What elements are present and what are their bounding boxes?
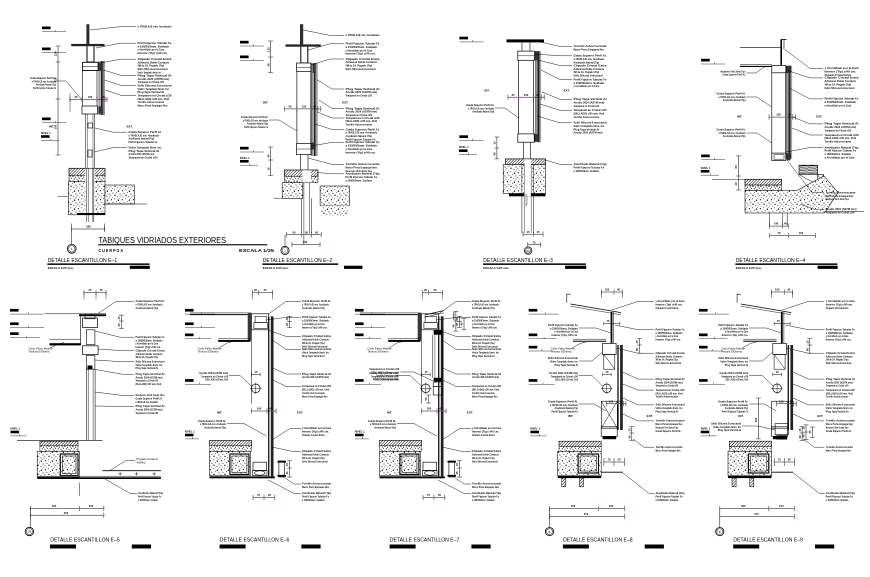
svg-text:15: 15: [117, 316, 121, 319]
svg-text:45: 45: [789, 399, 792, 403]
svg-text:INT.: INT.: [738, 414, 743, 418]
svg-text:Interior (Tip) c/40 cm.: Interior (Tip) c/40 cm.: [722, 333, 749, 337]
detail E&#8211;9 glazing: [788, 345, 789, 430]
detail E-2 balloon 2: [281, 246, 289, 254]
svg-text:C U E R P O A: C U E R P O A: [99, 248, 124, 253]
svg-text:150: 150: [524, 93, 529, 97]
svg-text:y Atornillado por la Cara: y Atornillado por la Cara: [825, 103, 852, 107]
svg-text:a 150/50/3mm. Soldado: a 150/50/3mm. Soldado: [346, 178, 373, 182]
svg-text:Interior (Tip) c/40 cm.: Interior (Tip) c/40 cm.: [346, 150, 376, 154]
svg-text:Grada Superior Perfil AL: Grada Superior Perfil AL: [656, 429, 682, 433]
svg-text:NVEL 1: NVEL 1: [701, 166, 711, 170]
detail E-1 bottom dimension 500: [71, 228, 104, 230]
detail E-5 upper glass box: [86, 330, 95, 345]
detail E&#8211;9 bottom dim 2: [720, 516, 795, 518]
detail E&#8211;7 floor bottom dark line: [380, 476, 445, 478]
svg-text:Perfil Fijacion Tubular Fe: Perfil Fijacion Tubular Fe: [129, 140, 158, 144]
svg-text:Tornillo Autorroscante: Tornillo Autorroscante: [574, 115, 600, 119]
detail E&#8211;8 embedded column: [578, 454, 598, 473]
detail E-5 dim witness: [78, 483, 80, 497]
detail E&#8211;9 level mark 1: [699, 309, 708, 312]
svg-text:a 150/50/3mm. Soldado: a 150/50/3mm. Soldado: [138, 498, 158, 502]
detail E-5 level mark 2: [10, 322, 19, 325]
detail E-1 left vertical dimension: [57, 46, 59, 155]
detail E&#8211;9 floor hatch band: [729, 441, 771, 447]
svg-text:DETALLE ESCANTILLON E–7: DETALLE ESCANTILLON E–7: [390, 537, 460, 543]
detail E&#8211;8 horizontal superior leader: [579, 352, 603, 361]
svg-text:Anodiz 2024 (ASTM mm): Anodiz 2024 (ASTM mm): [472, 375, 499, 379]
svg-text:15: 15: [102, 95, 105, 99]
detail E&#8211;9 gasket leader: [749, 376, 773, 387]
detail E-5 leader grada floor: [105, 479, 137, 493]
detail E&#8211;7 leader 4: [442, 340, 471, 349]
detail E-2 leader clip: [311, 59, 344, 65]
svg-text:Tornillo Autorroscante: Tornillo Autorroscante: [825, 140, 852, 144]
detail E-3 top slab hatch plate: [507, 39, 545, 42]
svg-text:15: 15: [537, 230, 540, 234]
svg-text:75: 75: [427, 493, 430, 497]
detail E&#8211;7 wall edge strip: [418, 313, 422, 341]
detail E&#8211;9 column box below: [772, 401, 788, 428]
detail E&#8211;9 balloon leader: [719, 509, 721, 528]
detail E&#8211;9 top dimension: [772, 291, 793, 293]
svg-text:Perfil Fijacion Tubular Fe: Perfil Fijacion Tubular Fe: [244, 125, 268, 129]
detail E&#8211;6 floor stipple band: [210, 446, 252, 452]
svg-text:Sello Silicona Estructural: Sello Silicona Estructural: [346, 67, 376, 71]
detail E&#8211;8 sloped roof lines: [571, 304, 622, 313]
detail E-1 right slab bottom line: [105, 203, 147, 205]
detail E&#8211;8 slab edge line: [601, 471, 623, 473]
svg-text:DETALLE ESCANTILLON E–8: DETALLE ESCANTILLON E–8: [563, 537, 633, 543]
svg-text:EXT.: EXT.: [816, 115, 822, 119]
svg-text:NVEL 1: NVEL 1: [355, 430, 365, 434]
detail E&#8211;8 pfo leader: [579, 404, 606, 411]
detail E-1 steel post W-beam: [86, 24, 89, 44]
svg-text:45: 45: [315, 230, 318, 234]
svg-text:45: 45: [619, 399, 622, 403]
detail E-4 anchor rods below: [769, 213, 771, 226]
detail E&#8211;6 leader umbral: [272, 428, 301, 440]
svg-text:15: 15: [455, 463, 459, 466]
detail E&#8211;7 mid dimension: [421, 410, 446, 412]
svg-text:15: 15: [776, 370, 779, 374]
detail E-1 step line left: [58, 196, 69, 198]
svg-text:40: 40: [266, 63, 270, 66]
svg-text:B: B: [548, 530, 550, 534]
detail E-2 leader glass stop: [315, 124, 344, 130]
detail E-4 level mark lower: [701, 155, 710, 158]
svg-text:150: 150: [52, 504, 57, 508]
detail E&#8211;6 leader 1: [269, 301, 302, 314]
sheet title underline: [98, 244, 267, 245]
svg-text:Pfog Tapa Vertical Al: Pfog Tapa Vertical Al: [725, 363, 749, 367]
svg-text:75: 75: [778, 458, 781, 462]
detail E&#8211;8 cielo leader: [572, 342, 586, 348]
detail E-4 joist X box: [818, 175, 824, 184]
svg-text:15: 15: [266, 167, 270, 170]
svg-text:DETALLE ESCANTILLON E–9: DETALLE ESCANTILLON E–9: [733, 537, 803, 543]
svg-text:15: 15: [806, 340, 810, 343]
detail E&#8211;8 leader asiento: [623, 398, 654, 405]
svg-text:Pfog Tapa Vertical Al: Pfog Tapa Vertical Al: [826, 409, 849, 413]
detail E&#8211;8 leader clipado: [616, 348, 654, 353]
detail E&#8211;6 mid dimension: [251, 410, 276, 412]
detail E-4 floor hatch band: [745, 179, 782, 185]
detail E-3 leader clip: [538, 60, 572, 66]
detail E&#8211;6 head cap assembly: [251, 314, 268, 330]
detail E&#8211;6 floor bottom dark line: [210, 476, 275, 478]
detail E-3 head clip block: [535, 51, 539, 60]
detail E-2 foundation left block: [282, 183, 303, 199]
detail E&#8211;8 pad bracket dim: [631, 427, 633, 441]
detail E-3 footing hatch band: [506, 159, 546, 165]
detail E&#8211;9 leader base: [803, 439, 824, 447]
detail E&#8211;7 leader 6: [443, 380, 471, 386]
detail E-4 npt extension line: [712, 179, 745, 181]
detail E&#8211;7 leader 5: [443, 368, 471, 374]
svg-text:Grada Superior Perfil AL: Grada Superior Perfil AL: [826, 429, 852, 433]
detail E-2 loose stipple right: [321, 206, 348, 217]
detail E&#8211;8 leader tapa: [623, 372, 654, 379]
svg-text:DETALLE ESCANTILLON E–2: DETALLE ESCANTILLON E–2: [263, 258, 333, 264]
detail E-1 foundation concrete left: [68, 181, 105, 215]
svg-text:Sello Silicona Estructural: Sello Silicona Estructural: [826, 361, 852, 365]
svg-text:NVEL 1: NVEL 1: [240, 156, 250, 160]
detail E-1 foundation bottom edge: [77, 213, 105, 215]
detail E-1 anchor rod below floor: [86, 168, 88, 222]
detail E&#8211;9 mid dimension: [777, 403, 797, 405]
detail E-1 mid clamp profile: [82, 106, 98, 114]
svg-text:150: 150: [779, 504, 784, 508]
svg-text:150: 150: [605, 288, 610, 292]
detail E&#8211;9 balloon B: [716, 528, 724, 536]
svg-text:Textura S/Diseno: Textura S/Diseno: [551, 350, 572, 354]
detail E&#8211;8 anchor bolt symbol: [603, 384, 612, 393]
detail E&#8211;7 embedded column: [400, 454, 419, 474]
detail E&#8211;6 leader fijacion: [272, 447, 301, 451]
detail E&#8211;7 profile bracket dim: [459, 461, 461, 477]
detail E-5 slab studs: [119, 473, 122, 475]
svg-text:PASADOR: PASADOR: [526, 194, 529, 206]
detail E&#8211;9 anchor bolt symbol: [773, 384, 782, 393]
detail E-1 anchor channel white: [85, 169, 95, 213]
svg-text:a TRASLAJE mm. Anodizado: a TRASLAJE mm. Anodizado: [346, 33, 380, 37]
detail E-5 foundation block: [37, 451, 79, 477]
detail E-4 bottom dim 1: [770, 225, 789, 227]
svg-text:Marco Porta Empaque Neo: Marco Porta Empaque Neo: [656, 448, 681, 452]
svg-text:40: 40: [787, 288, 790, 292]
svg-text:EXT.: EXT.: [127, 124, 133, 128]
detail E&#8211;6 gasket leader: [229, 376, 252, 387]
detail E&#8211;6 floor hatch band: [210, 440, 252, 445]
svg-text:50: 50: [618, 458, 621, 462]
detail E&#8211;6 leader 3: [268, 330, 301, 336]
detail E-2 leader interior edge: [308, 158, 344, 164]
detail E&#8211;8 glazing: [617, 345, 618, 430]
svg-text:INT.: INT.: [484, 89, 489, 93]
svg-text:220: 220: [754, 417, 758, 422]
detail E-2 level mark lower: [240, 147, 249, 150]
detail E-5 balloon leader: [29, 508, 31, 527]
detail E&#8211;9 steel post: [781, 312, 783, 343]
detail E&#8211;6 beam profile right: [279, 461, 284, 477]
detail E-4 concrete slab big: [745, 176, 838, 213]
svg-text:DETALLE ESCANTILLON E–6: DETALLE ESCANTILLON E–6: [220, 537, 289, 543]
detail E-2 anchor channel white: [302, 170, 311, 182]
detail E-3 anchor sleeve channel: [525, 159, 531, 196]
svg-text:10: 10: [734, 182, 738, 185]
detail E&#8211;8 balloon B: [545, 528, 553, 536]
detail E&#8211;6 embedded column: [230, 454, 249, 474]
svg-text:Anodizado Natural (Tip): Anodizado Natural (Tip): [302, 306, 325, 310]
svg-text:2A: 2A: [526, 249, 530, 253]
detail E&#8211;8 bolt mini dim: [603, 373, 612, 375]
detail E-5 floor stipple band: [40, 446, 78, 452]
detail E-4 leader intermediate: [783, 48, 823, 68]
detail E-1 level mark sill: [42, 118, 51, 121]
detail E-5 level mark 1: [10, 309, 19, 312]
svg-text:Clipado Cristal Extra: Clipado Cristal Extra: [472, 433, 495, 437]
svg-text:75: 75: [777, 319, 780, 323]
svg-text:Perfil Fijacion Tubular Fe: Perfil Fijacion Tubular Fe: [33, 86, 56, 90]
detail E-5 glass setting block: [88, 366, 93, 370]
svg-text:NVEL 1: NVEL 1: [41, 131, 51, 135]
svg-text:15: 15: [798, 428, 802, 431]
svg-text:ESCALA 1/25 mm.: ESCALA 1/25 mm.: [483, 266, 509, 270]
svg-text:15: 15: [802, 426, 806, 429]
detail E-1 slab stipple band: [69, 175, 105, 181]
detail E-4 floor stipple band: [745, 185, 782, 190]
svg-text:60: 60: [734, 165, 738, 168]
detail E&#8211;7 glazing: [438, 316, 439, 476]
svg-text:INT.: INT.: [263, 100, 268, 104]
detail E&#8211;7 beam profile right: [449, 461, 454, 477]
detail E&#8211;7 leader 1: [439, 301, 472, 314]
detail E-7 head bracket dim: [455, 311, 457, 331]
detail E-5 cielo falso leader: [50, 343, 64, 349]
detail E&#8211;7 level mark 4: [355, 379, 364, 382]
svg-text:100: 100: [88, 95, 93, 99]
detail E&#8211;7 foundation block: [380, 451, 421, 476]
detail E-1 slab screed hatch: [69, 168, 105, 175]
detail E-1 glass stop block: [88, 123, 93, 128]
detail E&#8211;6 soffit step dark: [218, 338, 250, 340]
detail E-4 leader tempaned: [792, 128, 823, 135]
svg-text:INT.: INT.: [737, 115, 742, 119]
svg-text:Interior (Tip) c/40 cm.: Interior (Tip) c/40 cm.: [302, 325, 328, 329]
detail E&#8211;6 leader 5: [273, 368, 301, 374]
detail E-2 balloon leader: [284, 235, 286, 247]
detail E-7 sloped head lines: [425, 311, 444, 315]
detail E&#8211;7 right bracket dim: [459, 316, 461, 327]
svg-text:100: 100: [779, 399, 784, 403]
detail E&#8211;7 bottom dimension: [423, 497, 445, 499]
svg-text:Anodizado Natural (Tip): Anodizado Natural (Tip): [723, 134, 746, 138]
detail E&#8211;6 cielo leader: [219, 342, 233, 349]
svg-text:1.10: 1.10: [266, 47, 270, 53]
detail E-1 balloon leader: [70, 229, 72, 244]
detail E-2 bottom cap profile: [297, 144, 311, 155]
svg-text:150: 150: [302, 105, 307, 109]
detail E-1 level mark upper: [42, 27, 51, 30]
detail E-5 head cap profile: [83, 318, 98, 328]
svg-text:varios: varios: [452, 312, 456, 320]
detail E-9 left vertical dim 220: [758, 398, 760, 439]
detail E&#8211;8 column box below: [601, 401, 617, 428]
detail E&#8211;6 bolt mini dim: [252, 373, 261, 375]
detail E-1 head clip block: [98, 63, 103, 72]
detail E-5 leader grada sup: [97, 301, 134, 314]
svg-text:Perfil Fijacion Tubular Fe: Perfil Fijacion Tubular Fe: [722, 409, 749, 413]
detail E&#8211;7 soffit step dark: [388, 338, 420, 340]
detail E&#8211;6 bottom cap assembly: [253, 462, 267, 470]
detail E-2 leader bottom anchor: [311, 142, 344, 146]
detail E&#8211;7 ceiling double line: [360, 312, 418, 314]
svg-text:45: 45: [313, 105, 316, 109]
detail E-3 footing concrete: [503, 165, 545, 194]
detail E-4 mid dimension: [769, 116, 795, 118]
svg-text:45: 45: [100, 288, 103, 292]
detail E-7 dark spacer below cap: [434, 330, 443, 335]
svg-text:Interior (Tip) c/40 cm.: Interior (Tip) c/40 cm.: [826, 338, 852, 342]
svg-text:y Atornillado por la Cara: y Atornillado por la Cara: [825, 155, 855, 159]
detail E-3 level mark top: [459, 37, 468, 40]
svg-text:20: 20: [254, 288, 257, 292]
detail E-2 steel post: [300, 24, 303, 44]
svg-text:125: 125: [54, 51, 58, 56]
detail E&#8211;7 floor hatch band: [380, 440, 422, 445]
detail E&#8211;9 bottom dark pad: [773, 436, 787, 439]
detail E&#8211;7 leader 2: [437, 317, 472, 320]
detail E-1 head cap profile: [83, 62, 99, 70]
svg-text:15: 15: [628, 428, 632, 431]
detail E&#8211;9 leader polka: [793, 414, 824, 421]
detail E&#8211;8 floor hatch band: [559, 441, 601, 447]
svg-text:Anodizado Natural (Tip): Anodizado Natural (Tip): [136, 306, 159, 310]
svg-text:95: 95: [305, 230, 308, 234]
svg-text:Interior (Tip) c/40 cm.: Interior (Tip) c/40 cm.: [552, 333, 579, 337]
detail E&#8211;7 floor stipple band: [380, 446, 422, 452]
svg-text:25: 25: [808, 430, 812, 433]
svg-text:NVEL 1: NVEL 1: [530, 427, 540, 431]
detail E-4 slab line extension: [825, 211, 864, 213]
svg-text:Textura S/Diseno: Textura S/Diseno: [368, 350, 389, 354]
detail E-3 anchor rods below: [521, 165, 523, 234]
detail E-3 leader glass stop: [537, 116, 572, 123]
svg-text:150: 150: [54, 124, 58, 129]
detail E-5 floor bottom lines: [37, 475, 161, 477]
svg-text:45: 45: [117, 323, 121, 326]
detail E&#8211;7 pfo leader: [397, 424, 437, 437]
svg-text:DETALLE ESCANTILLON E–3: DETALLE ESCANTILLON E–3: [483, 258, 553, 264]
detail E&#8211;6 leader 2: [267, 317, 302, 320]
svg-text:Sello Silicona Estructural: Sello Silicona Estructural: [656, 361, 682, 365]
detail E&#8211;6 leader base: [285, 478, 302, 485]
svg-text:EXT.: EXT.: [342, 100, 348, 104]
svg-text:Marco Porta Empaque Neo: Marco Porta Empaque Neo: [138, 104, 168, 108]
svg-text:B: B: [719, 530, 721, 534]
svg-text:(SELLADO) c/20 mm. Vinil: (SELLADO) c/20 mm. Vinil: [136, 382, 162, 386]
detail E&#8211;9 leader tapa: [793, 372, 824, 379]
detail E-1 leader bottom glass: [94, 148, 127, 152]
detail E-2 left dim bottom: [270, 147, 272, 176]
detail E-2 leader anchor: [308, 44, 344, 50]
svg-text:Interior (Tip) c/40 cm.: Interior (Tip) c/40 cm.: [346, 52, 376, 56]
detail E&#8211;7 level mark 2: [355, 322, 364, 325]
detail E&#8211;6 right bracket dim: [289, 316, 291, 327]
svg-text:Grada Superior Perfil AL: Grada Superior Perfil AL: [722, 73, 745, 77]
detail E-5 floor hatch band: [40, 441, 78, 446]
detail E-4 leader tornillo: [787, 160, 824, 193]
detail E-2 head cap profile: [297, 63, 311, 71]
detail E-3 left dim: [496, 137, 498, 159]
svg-text:24: 24: [438, 407, 441, 411]
detail E-1 leader to mullion: [57, 81, 82, 100]
detail E-4 leader grada: [789, 88, 823, 99]
detail E&#8211;8 level mark 1: [529, 309, 538, 312]
svg-text:Tornillo Autorroscante: Tornillo Autorroscante: [656, 395, 679, 399]
detail E-2 leader tempaned: [317, 112, 344, 118]
detail E-5 leader cristal: [93, 369, 134, 374]
detail E&#8211;7 bolt mini dim: [422, 373, 431, 375]
svg-text:Marco Porta Empaque Neo: Marco Porta Empaque Neo: [574, 48, 605, 52]
detail E-4 left dim: [738, 156, 740, 190]
detail E-1 leader clip: [100, 59, 136, 63]
svg-text:40: 40: [266, 154, 270, 157]
detail E-3 bottom cap profile: [518, 134, 535, 142]
svg-text:400: 400: [571, 504, 576, 508]
svg-text:40: 40: [493, 152, 497, 155]
detail E&#8211;9 leader fijacion: [785, 325, 824, 330]
svg-text:a 150/50/3mm. Soldado: a 150/50/3mm. Soldado: [656, 498, 679, 502]
detail E-2 bottom clip block: [311, 143, 316, 150]
detail E-3 level mark bottom: [459, 135, 468, 138]
detail E&#8211;8 right bracket dim: [639, 339, 641, 354]
detail E&#8211;9 pad bracket dim: [801, 427, 803, 441]
svg-text:Tornillo Autorroscante: Tornillo Autorroscante: [826, 395, 849, 399]
detail E-7 mid clamp: [434, 378, 443, 382]
detail E-1 leader steel beam: [90, 27, 136, 30]
svg-text:60: 60: [806, 348, 810, 351]
detail E&#8211;7 leader base: [455, 478, 472, 485]
detail E&#8211;8 leader fijacion: [615, 325, 654, 330]
svg-text:Tempaned en Cristal c/20: Tempaned en Cristal c/20: [129, 156, 158, 160]
detail E-7 inner mullion lines: [432, 335, 434, 378]
svg-text:Tornillo Autorroscante: Tornillo Autorroscante: [346, 123, 373, 127]
detail E-2 leader left: [269, 120, 297, 131]
detail E-2 level mark mid: [240, 56, 249, 59]
detail E&#8211;7 level mark 3: [355, 334, 364, 337]
detail E&#8211;8 level mark 2: [529, 334, 538, 337]
svg-text:75: 75: [533, 240, 536, 244]
detail E-3 leader tempaned: [540, 104, 572, 110]
detail E-3 footing bottom dark band: [509, 194, 546, 197]
detail E&#8211;6 wall edge strip: [248, 313, 252, 341]
svg-text:75: 75: [608, 458, 611, 462]
detail E&#8211;9 leader tempaned: [793, 384, 824, 390]
detail E&#8211;9 leader asiento: [793, 398, 824, 405]
detail E&#8211;9 leader grada inf: [793, 473, 825, 493]
detail E-3 hanger neck: [521, 42, 523, 51]
detail E&#8211;7 interior face line: [420, 330, 422, 404]
svg-text:a 150/50/3mm. Soldado: a 150/50/3mm. Soldado: [574, 169, 600, 173]
detail E&#8211;8 floor bottom dark line: [558, 476, 602, 478]
detail E-4 bottom cap profile: [772, 153, 786, 160]
svg-text:Clipado Cristal Extra: Clipado Cristal Extra: [656, 306, 679, 310]
detail E&#8211;6 interior face line: [250, 330, 252, 404]
svg-text:EXT.: EXT.: [817, 414, 823, 418]
detail E&#8211;9 level mark 2: [699, 334, 708, 337]
